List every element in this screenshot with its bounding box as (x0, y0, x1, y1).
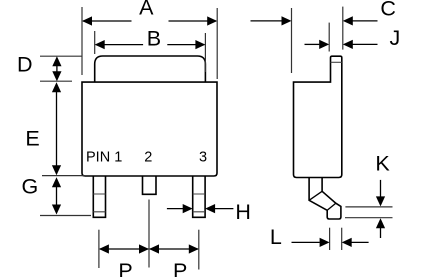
lead side view (309, 178, 341, 220)
lead 3 (193, 176, 205, 217)
P arrowhead far left (99, 244, 109, 253)
P arrowhead center-left (pointing right) (139, 244, 149, 253)
H arrowhead right (pointing left) (205, 204, 215, 213)
svg-text:K: K (375, 151, 390, 175)
C arrowhead right (pointing left) (343, 16, 353, 25)
B arrowhead right (195, 40, 205, 49)
G arrowhead up (52, 177, 61, 187)
A dimension line (83, 20, 216, 22)
svg-text:A: A (139, 0, 154, 20)
svg-text:H: H (235, 200, 251, 224)
lead bend crease lower (327, 203, 336, 210)
P extension line right (lead 3 center) (198, 230, 200, 270)
lead 1 cross lines (93, 194, 105, 212)
P extension line left (lead 1 center) (98, 230, 100, 268)
C arrow line left (251, 20, 283, 22)
D arrowhead up (52, 56, 61, 66)
dimension B (95, 31, 206, 72)
J arrow line right (353, 43, 378, 45)
E dimension line (56, 90, 58, 168)
package body front view (82, 82, 217, 176)
C / J extension line right (342, 7, 344, 50)
dimension P (99, 200, 199, 270)
K arrow stem upper (380, 180, 382, 197)
tab chamfer line side view (331, 61, 342, 63)
K lower reference line (345, 217, 393, 219)
J extension line left (328, 23, 330, 52)
B extension line right (204, 33, 206, 72)
mounting tab front view (95, 56, 206, 82)
P center extension line (lead 2 center) (148, 200, 150, 268)
K upper reference line (345, 206, 392, 208)
package body side view (294, 56, 342, 177)
H arrow line left (167, 208, 183, 210)
D extension line top (tab top level) (40, 55, 82, 57)
svg-text:PIN 1: PIN 1 (86, 150, 122, 166)
svg-text:L: L (270, 225, 282, 249)
L arrow line left (292, 241, 320, 243)
E arrowhead up (52, 82, 61, 92)
svg-text:D: D (17, 52, 33, 76)
K arrowhead up (376, 218, 385, 228)
C extension line left (291, 8, 293, 73)
A arrowhead left (82, 16, 92, 25)
dimension L (330, 228, 342, 250)
E extension line bottom (body bottom level) (42, 175, 85, 177)
H arrow line right (215, 208, 233, 210)
svg-text:E: E (25, 126, 39, 150)
G arrowhead down (52, 205, 61, 215)
K arrowhead down (376, 196, 385, 206)
svg-text:3: 3 (199, 150, 207, 166)
lead 1 (93, 176, 105, 217)
C arrowhead left (pointing right) (282, 16, 292, 25)
B extension line left (94, 31, 96, 54)
lead 2 (143, 176, 157, 194)
A arrowhead right (207, 16, 217, 25)
J arrowhead right (pointing left) (343, 40, 353, 49)
G dimension line (56, 184, 58, 208)
svg-text:J: J (390, 26, 401, 50)
svg-text:B: B (147, 27, 161, 51)
L extension line left (329, 228, 331, 250)
B arrowhead left (95, 40, 105, 49)
L arrow line right (351, 241, 368, 243)
J arrow line left (305, 43, 320, 45)
lead bend crease upper (309, 191, 322, 200)
svg-text:C: C (380, 0, 396, 20)
L arrowhead right (pointing left) (342, 238, 352, 247)
H arrowhead left (pointing right) (183, 204, 193, 213)
D extension line bottom (body top level) (40, 80, 72, 82)
svg-text:P: P (118, 259, 132, 277)
J arrowhead left (pointing right) (319, 40, 329, 49)
A extension line right (216, 8, 218, 79)
P arrowhead far right (189, 244, 199, 253)
D dimension line (56, 64, 58, 74)
C arrow line right (353, 20, 378, 22)
L extension line right (341, 228, 343, 250)
G extension line bottom (lead tip level) (40, 215, 91, 217)
B dimension line (96, 44, 205, 46)
svg-text:2: 2 (144, 150, 152, 166)
P dimension line (100, 248, 198, 250)
dimension D (40, 56, 82, 81)
dimension C (292, 7, 343, 73)
dimension A (82, 7, 217, 79)
svg-text:P: P (173, 259, 187, 277)
lead 3 cross lines (193, 194, 205, 212)
K arrow stem lower (380, 228, 382, 238)
svg-text:G: G (22, 175, 39, 199)
P arrowhead center-right (pointing left) (149, 244, 159, 253)
A extension line left (81, 7, 83, 75)
E arrowhead down (52, 165, 61, 175)
L arrowhead left (pointing right) (320, 238, 330, 247)
D arrowhead down (52, 71, 61, 81)
